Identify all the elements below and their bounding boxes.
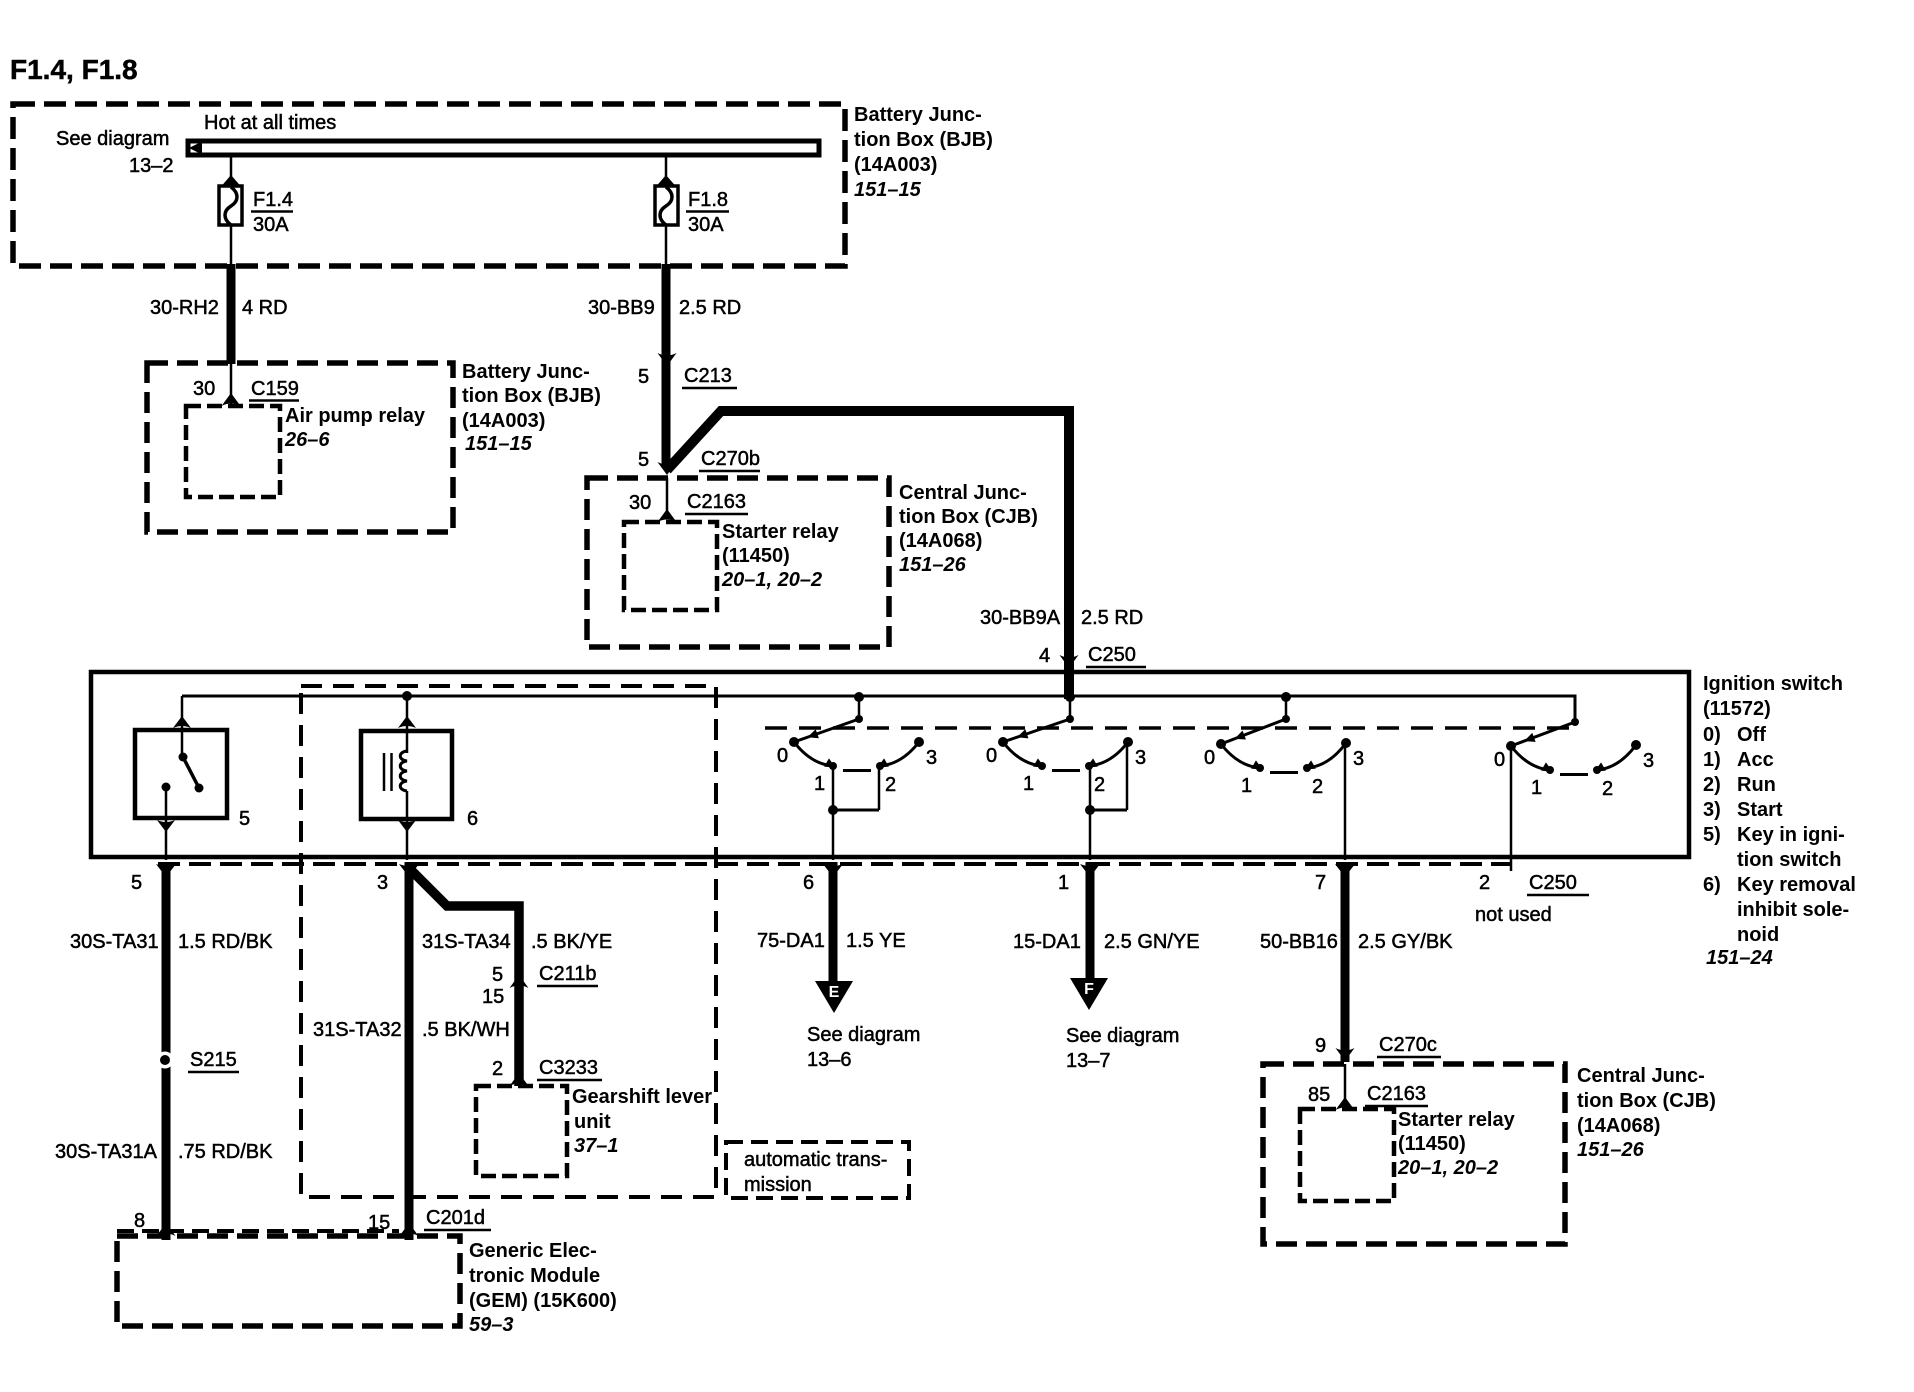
svg-text:Gearshift lever: Gearshift lever	[572, 1086, 712, 1108]
svg-text:2.5 GY/BK: 2.5 GY/BK	[1358, 931, 1453, 953]
connector arrow pin 3 row	[399, 864, 419, 877]
connector arrow pin 5 row	[156, 864, 176, 877]
solenoid core lines	[383, 753, 386, 791]
wire bus into solenoid	[406, 696, 409, 753]
solenoid top arrow	[398, 716, 416, 728]
ignition switch wafer D (not used)	[1571, 718, 1579, 726]
svg-text:unit: unit	[574, 1111, 611, 1133]
svg-text:C201d: C201d	[426, 1207, 485, 1229]
key-in switch bottom arrow	[157, 820, 175, 832]
ignition switch (11572) box	[91, 672, 1689, 857]
wire 31S-TA34 branch (thick)	[409, 868, 519, 1086]
connector C201d row (dashed)	[117, 1229, 399, 1233]
svg-text:9: 9	[1315, 1035, 1326, 1057]
fuse F1.4 arrow	[222, 175, 241, 186]
svg-text:Ignition switch: Ignition switch	[1703, 673, 1843, 695]
svg-text:30A: 30A	[688, 214, 724, 236]
svg-text:151–24: 151–24	[1706, 947, 1773, 969]
wire 15-DA1 (thick)	[1086, 862, 1095, 981]
starter relay 2 (dashed box)	[1300, 1109, 1394, 1201]
connector C211b arrow	[510, 975, 529, 988]
wafer B bracket joining contacts 2+3 and output to pin 1	[1089, 766, 1092, 810]
splice S215	[157, 1052, 174, 1069]
wire 30-RH2 4 RD (thick)	[227, 264, 236, 364]
svg-text:Starter relay: Starter relay	[722, 521, 840, 543]
svg-text:E: E	[829, 984, 840, 1001]
svg-text:tion Box (CJB): tion Box (CJB)	[1577, 1090, 1716, 1112]
svg-text:Start: Start	[1737, 799, 1783, 821]
fuse F1.4	[219, 186, 242, 225]
svg-text:20–1, 20–2: 20–1, 20–2	[721, 569, 822, 591]
svg-text:automatic trans-: automatic trans-	[744, 1149, 887, 1171]
svg-text:4: 4	[1039, 645, 1050, 667]
svg-text:0: 0	[777, 745, 788, 767]
svg-text:2.5 RD: 2.5 RD	[679, 297, 741, 319]
svg-text:tion Box (BJB): tion Box (BJB)	[462, 385, 601, 407]
battery junction box BJB (around air pump relay, dashed)	[147, 363, 453, 532]
ignition switch wafer B (run)	[1065, 692, 1075, 702]
air pump relay (dashed box)	[186, 406, 280, 497]
svg-text:inhibit sole-: inhibit sole-	[1737, 899, 1849, 921]
svg-text:Key in igni-: Key in igni-	[1737, 824, 1845, 846]
svg-text:Starter relay: Starter relay	[1398, 1109, 1516, 1131]
svg-text:C2163: C2163	[1367, 1083, 1426, 1105]
svg-text:.5 BK/YE: .5 BK/YE	[531, 931, 612, 953]
svg-text:0: 0	[1204, 747, 1215, 769]
svg-text:2: 2	[1479, 872, 1490, 894]
wire into C159	[230, 363, 233, 406]
connector C213 arrow	[658, 353, 677, 366]
svg-text:See diagram: See diagram	[807, 1024, 920, 1046]
wire 30-BB9A trunk (thick, diagonal + horizontal + down to C250)	[667, 411, 1069, 699]
svg-text:13–6: 13–6	[807, 1049, 852, 1071]
svg-text:1: 1	[1531, 777, 1542, 799]
svg-text:15-DA1: 15-DA1	[1013, 931, 1081, 953]
svg-text:2: 2	[1312, 776, 1323, 798]
svg-text:(11572): (11572)	[1703, 698, 1771, 720]
wire bus into key-in switch	[181, 696, 184, 754]
svg-text:30-BB9A: 30-BB9A	[980, 607, 1061, 629]
off-page arrow E	[815, 981, 853, 1013]
svg-text:2): 2)	[1703, 774, 1721, 796]
svg-text:0: 0	[1494, 749, 1505, 771]
wire bus to fuse F1.8	[665, 157, 668, 186]
svg-text:26–6: 26–6	[284, 429, 330, 451]
wafer A bracket joining contacts 1+2 and output to pin 6	[832, 766, 835, 810]
svg-text:151–15: 151–15	[854, 179, 922, 201]
svg-text:6: 6	[803, 872, 814, 894]
svg-text:(14A068): (14A068)	[899, 530, 982, 552]
svg-text:50-BB16: 50-BB16	[1260, 931, 1338, 953]
ignition switch wafer C (start)	[1281, 692, 1291, 702]
svg-text:30A: 30A	[253, 214, 289, 236]
svg-text:151–15: 151–15	[465, 433, 533, 455]
svg-text:1.5 RD/BK: 1.5 RD/BK	[178, 931, 273, 953]
svg-text:4 RD: 4 RD	[242, 297, 288, 319]
svg-text:C3233: C3233	[539, 1057, 598, 1079]
svg-text:3: 3	[1643, 750, 1654, 772]
key-in switch lower wire	[165, 787, 168, 860]
connector C270c arrow	[1336, 1048, 1355, 1061]
svg-text:30-BB9: 30-BB9	[588, 297, 655, 319]
svg-text:2: 2	[1094, 774, 1105, 796]
power bus bar (hot at all times)	[188, 141, 819, 155]
connector arrow pin 7 row	[1335, 864, 1355, 877]
wire 75-DA1 (thick)	[829, 862, 838, 984]
svg-text:Hot at all times: Hot at all times	[204, 112, 336, 134]
svg-text:1: 1	[1241, 775, 1252, 797]
svg-text:Central Junc-: Central Junc-	[1577, 1065, 1705, 1087]
svg-text:59–3: 59–3	[469, 1314, 514, 1336]
svg-text:30: 30	[629, 492, 651, 514]
connector C2163 arrow (CJB 2)	[1336, 1097, 1355, 1110]
svg-text:3: 3	[377, 872, 388, 894]
svg-text:tion Box (CJB): tion Box (CJB)	[899, 506, 1038, 528]
svg-text:30-RH2: 30-RH2	[150, 297, 219, 319]
svg-text:noid: noid	[1737, 924, 1779, 946]
svg-text:2: 2	[492, 1058, 503, 1080]
svg-text:Key removal: Key removal	[1737, 874, 1856, 896]
ignition switch wafer A (accessory)	[854, 692, 864, 702]
svg-text:20–1, 20–2: 20–1, 20–2	[1397, 1157, 1498, 1179]
wafer C output from contact 3 to pin 7	[1344, 743, 1347, 860]
svg-text:Run: Run	[1737, 774, 1776, 796]
connector C270b arrow	[658, 462, 677, 475]
internal feed bus wire	[182, 696, 1575, 722]
key-in switch contacts and blade	[179, 753, 188, 762]
svg-text:151–26: 151–26	[899, 554, 967, 576]
off-page arrow F	[1070, 978, 1108, 1010]
svg-text:5: 5	[131, 872, 142, 894]
connector C250 arrow	[1060, 655, 1079, 668]
svg-text:(14A068): (14A068)	[1577, 1115, 1660, 1137]
svg-text:Air pump relay: Air pump relay	[285, 405, 426, 427]
key removal inhibit solenoid box	[361, 731, 452, 819]
svg-text:.5 BK/WH: .5 BK/WH	[422, 1019, 510, 1041]
fuse F1.8 arrow	[657, 175, 676, 186]
svg-text:See diagram: See diagram	[1066, 1025, 1179, 1047]
svg-text:6): 6)	[1703, 874, 1721, 896]
svg-text:C2163: C2163	[687, 491, 746, 513]
key-in-ignition switch box	[135, 730, 227, 818]
wire 30S-TA31 (thick)	[162, 862, 171, 1240]
svg-text:(14A003): (14A003)	[854, 154, 937, 176]
svg-text:C250: C250	[1088, 644, 1136, 666]
generic electronic module GEM (dashed box)	[117, 1236, 460, 1326]
svg-text:C211b: C211b	[539, 963, 596, 985]
wire 30-BB9 2.5 RD (thick)	[662, 264, 671, 468]
svg-text:tion switch: tion switch	[1737, 849, 1841, 871]
svg-text:6: 6	[467, 808, 478, 830]
svg-text:5: 5	[492, 964, 503, 986]
fuse F1.8	[655, 186, 678, 225]
svg-text:1: 1	[814, 773, 825, 795]
svg-text:Generic Elec-: Generic Elec-	[469, 1240, 597, 1262]
key-in switch top arrow	[173, 716, 191, 728]
svg-text:Off: Off	[1737, 724, 1766, 746]
svg-text:15: 15	[482, 986, 504, 1008]
svg-text:30S-TA31A: 30S-TA31A	[55, 1141, 158, 1163]
svg-text:31S-TA32: 31S-TA32	[313, 1019, 402, 1041]
svg-text:13–7: 13–7	[1066, 1050, 1111, 1072]
svg-text:37–1: 37–1	[574, 1135, 619, 1157]
inner dashed region (automatic transmission group)	[301, 686, 716, 1197]
svg-text:mission: mission	[744, 1174, 812, 1196]
svg-text:C270b: C270b	[701, 448, 760, 470]
svg-text:2.5 GN/YE: 2.5 GN/YE	[1104, 931, 1200, 953]
svg-text:151–26: 151–26	[1577, 1139, 1645, 1161]
svg-text:C250: C250	[1529, 872, 1577, 894]
starter relay (dashed box)	[624, 522, 717, 610]
svg-text:1: 1	[1058, 872, 1069, 894]
svg-text:C159: C159	[251, 378, 299, 400]
svg-text:0: 0	[986, 745, 997, 767]
svg-text:30: 30	[193, 378, 215, 400]
svg-text:3): 3)	[1703, 799, 1721, 821]
svg-text:(11450): (11450)	[1398, 1133, 1466, 1155]
svg-text:2.5 RD: 2.5 RD	[1081, 607, 1143, 629]
svg-text:7: 7	[1315, 872, 1326, 894]
svg-text:C213: C213	[684, 365, 732, 387]
battery junction box BJB (top, dashed)	[13, 104, 845, 266]
svg-text:F1.4: F1.4	[253, 189, 293, 211]
svg-text:Battery Junc-: Battery Junc-	[462, 361, 590, 383]
dashed contact row inside ignition switch	[765, 726, 1577, 730]
svg-text:tion Box (BJB): tion Box (BJB)	[854, 129, 993, 151]
wire 50-BB16 (thick)	[1341, 862, 1350, 1062]
solenoid lower wire	[406, 791, 409, 860]
svg-text:3: 3	[926, 747, 937, 769]
svg-text:See diagram: See diagram	[56, 128, 169, 150]
svg-text:3: 3	[1353, 748, 1364, 770]
connector C3233 arrow	[510, 1073, 529, 1086]
svg-text:(GEM) (15K600): (GEM) (15K600)	[469, 1290, 617, 1312]
svg-text:1): 1)	[1703, 749, 1721, 771]
wire fuse F1.4 below (thin)	[230, 225, 233, 266]
wire C270b to starter relay	[666, 478, 669, 516]
svg-text:30S-TA31: 30S-TA31	[70, 931, 159, 953]
connector arrow pin 6 row	[823, 864, 843, 877]
automatic transmission (dashed box)	[726, 1142, 909, 1198]
svg-text:2: 2	[1602, 778, 1613, 800]
connector C2163 arrow	[658, 509, 677, 522]
svg-text:1: 1	[1023, 773, 1034, 795]
svg-text:5: 5	[638, 449, 649, 471]
connector C159 arrow	[222, 393, 241, 406]
svg-text:8: 8	[134, 1210, 145, 1232]
svg-text:tronic Module: tronic Module	[469, 1265, 600, 1287]
svg-text:Central Junc-: Central Junc-	[899, 482, 1027, 504]
svg-text:(11450): (11450)	[722, 545, 790, 567]
gearshift lever unit (dashed box)	[476, 1086, 567, 1176]
svg-text:0): 0)	[1703, 724, 1721, 746]
solenoid coil	[400, 751, 407, 791]
connector arrow GEM pin 8	[157, 1223, 176, 1236]
wire 31S-TA32 (thick)	[405, 862, 414, 1240]
junction node on bus	[402, 691, 412, 701]
svg-text:5: 5	[239, 808, 250, 830]
svg-text:5: 5	[638, 366, 649, 388]
svg-text:C270c: C270c	[1379, 1034, 1437, 1056]
svg-text:F1.4, F1.8: F1.4, F1.8	[10, 54, 138, 85]
svg-text:2: 2	[885, 774, 896, 796]
connector arrow GEM pin 15	[400, 1223, 419, 1236]
svg-text:85: 85	[1308, 1084, 1330, 1106]
svg-text:5): 5)	[1703, 824, 1721, 846]
solenoid bottom arrow	[398, 820, 416, 832]
central junction box CJB (dashed)	[587, 478, 889, 647]
wafer D output from contact 0 to pin 2	[1510, 746, 1513, 871]
svg-text:F: F	[1084, 981, 1094, 998]
svg-text:31S-TA34: 31S-TA34	[422, 931, 511, 953]
svg-text:not used: not used	[1475, 904, 1552, 926]
svg-text:13–2: 13–2	[129, 155, 174, 177]
wire fuse F1.8 below (thin)	[665, 225, 668, 266]
svg-text:Battery Junc-: Battery Junc-	[854, 104, 982, 126]
svg-text:Acc: Acc	[1737, 749, 1774, 771]
svg-text:.75 RD/BK: .75 RD/BK	[178, 1141, 273, 1163]
svg-text:S215: S215	[190, 1049, 237, 1071]
svg-text:1.5 YE: 1.5 YE	[846, 930, 906, 952]
svg-text:75-DA1: 75-DA1	[757, 930, 825, 952]
svg-text:F1.8: F1.8	[688, 189, 728, 211]
svg-text:(14A003): (14A003)	[462, 410, 545, 432]
connector row below ignition switch (dashed)	[158, 862, 1512, 866]
svg-text:3: 3	[1135, 747, 1146, 769]
wire bus to fuse F1.4	[230, 157, 233, 186]
connector arrow pin 1 row	[1080, 864, 1100, 877]
wire C270c to starter relay 2	[1344, 1064, 1347, 1103]
central junction box CJB 2 (dashed)	[1263, 1064, 1565, 1244]
